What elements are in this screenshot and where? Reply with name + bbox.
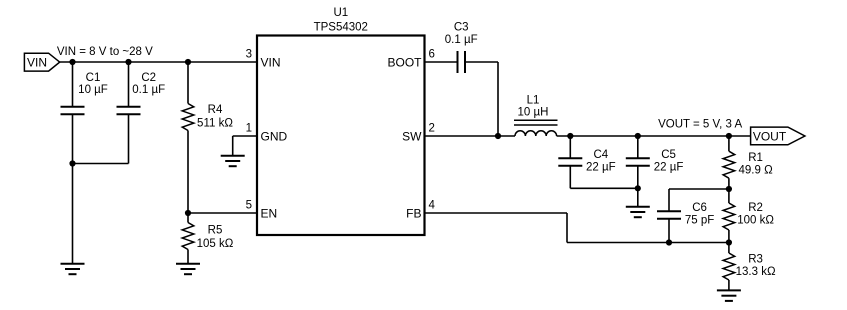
- svg-text:BOOT: BOOT: [387, 55, 422, 69]
- ground IC pin 1: [221, 156, 245, 167]
- junction C3-SW: [495, 133, 501, 139]
- wire BOOT: [425, 61, 458, 63]
- svg-text:R4: R4: [208, 104, 223, 116]
- svg-text:0.1 µF: 0.1 µF: [445, 34, 478, 46]
- wire FB: [425, 213, 729, 243]
- capacitor C3: [445, 22, 498, 136]
- svg-text:22 µF: 22 µF: [654, 161, 684, 173]
- svg-text:L1: L1: [527, 94, 540, 106]
- svg-text:R5: R5: [208, 225, 223, 237]
- svg-text:6: 6: [429, 49, 435, 61]
- wire VIN rail: [60, 61, 257, 63]
- op-amp IC U1 TPS54302: [257, 7, 425, 235]
- svg-text:13.3 kΩ: 13.3 kΩ: [736, 266, 776, 278]
- svg-text:3: 3: [246, 49, 252, 61]
- svg-text:EN: EN: [261, 206, 278, 220]
- svg-text:TPS54302: TPS54302: [314, 21, 368, 33]
- wire C6 top branch: [669, 189, 729, 211]
- svg-text:49.9 Ω: 49.9 Ω: [739, 164, 774, 176]
- junction C6-FB: [666, 239, 672, 245]
- junction C2 tap: [125, 59, 131, 65]
- svg-text:C5: C5: [661, 149, 676, 161]
- svg-text:22 µF: 22 µF: [586, 161, 616, 173]
- resistor R3: [723, 243, 776, 291]
- capacitor C6: [657, 202, 714, 243]
- junction C4 tap: [567, 133, 573, 139]
- output tag VOUT: [751, 127, 805, 145]
- svg-text:GND: GND: [261, 129, 288, 143]
- resistor R5: [182, 213, 234, 264]
- junction C1 tap: [69, 59, 75, 65]
- wire GND pin 1: [233, 135, 257, 137]
- capacitor C5: [626, 136, 684, 207]
- junction R4 tap: [185, 59, 191, 65]
- capacitor C4: [558, 136, 638, 188]
- junction C5 tap: [635, 133, 641, 139]
- svg-text:C6: C6: [692, 202, 707, 214]
- svg-text:4: 4: [429, 200, 436, 212]
- svg-text:C4: C4: [593, 149, 608, 161]
- junction R1-R2: [726, 186, 732, 192]
- wire VOUT rail: [557, 135, 751, 137]
- junction C4-C5-gnd: [635, 185, 641, 191]
- inductor L1: [514, 94, 558, 136]
- svg-text:1: 1: [246, 123, 252, 135]
- capacitor C1: [61, 62, 108, 264]
- svg-text:VOUT = 5 V, 3 A: VOUT = 5 V, 3 A: [658, 119, 742, 131]
- input tag VIN: [24, 53, 59, 71]
- svg-text:VIN: VIN: [261, 55, 281, 69]
- svg-text:10 µH: 10 µH: [518, 107, 549, 119]
- junction EN node: [185, 210, 191, 216]
- svg-text:R3: R3: [748, 254, 763, 266]
- ground R5: [176, 264, 200, 275]
- junction R1 tap: [726, 133, 732, 139]
- svg-text:2: 2: [429, 123, 435, 135]
- svg-text:5: 5: [246, 200, 252, 212]
- svg-text:100 kΩ: 100 kΩ: [737, 214, 774, 226]
- resistor R2: [723, 189, 774, 243]
- svg-text:511 kΩ: 511 kΩ: [197, 117, 233, 129]
- svg-text:R2: R2: [748, 202, 763, 214]
- resistor R1: [723, 136, 773, 189]
- svg-text:0.1 µF: 0.1 µF: [132, 84, 165, 96]
- junction R2-R3 FB node: [726, 239, 732, 245]
- wire EN: [188, 212, 257, 214]
- junction C1-C2 bottom: [69, 160, 75, 166]
- wire SW: [425, 135, 516, 137]
- ground R3: [717, 290, 741, 301]
- svg-text:75 pF: 75 pF: [685, 214, 714, 226]
- resistor R4: [182, 62, 233, 213]
- svg-text:10 µF: 10 µF: [78, 84, 108, 96]
- ground C5: [626, 207, 650, 218]
- svg-text:VIN: VIN: [27, 55, 47, 69]
- svg-text:SW: SW: [402, 129, 422, 143]
- svg-text:R1: R1: [748, 152, 763, 164]
- svg-text:C1: C1: [86, 72, 101, 84]
- svg-text:U1: U1: [333, 7, 348, 19]
- svg-text:C2: C2: [141, 72, 156, 84]
- svg-text:FB: FB: [406, 206, 421, 220]
- ground input: [61, 264, 85, 275]
- capacitor C2: [73, 62, 166, 164]
- svg-text:VIN = 8 V to ~28 V: VIN = 8 V to ~28 V: [57, 46, 153, 58]
- svg-text:VOUT: VOUT: [753, 129, 787, 143]
- svg-text:C3: C3: [454, 22, 469, 34]
- svg-text:105 kΩ: 105 kΩ: [197, 238, 234, 250]
